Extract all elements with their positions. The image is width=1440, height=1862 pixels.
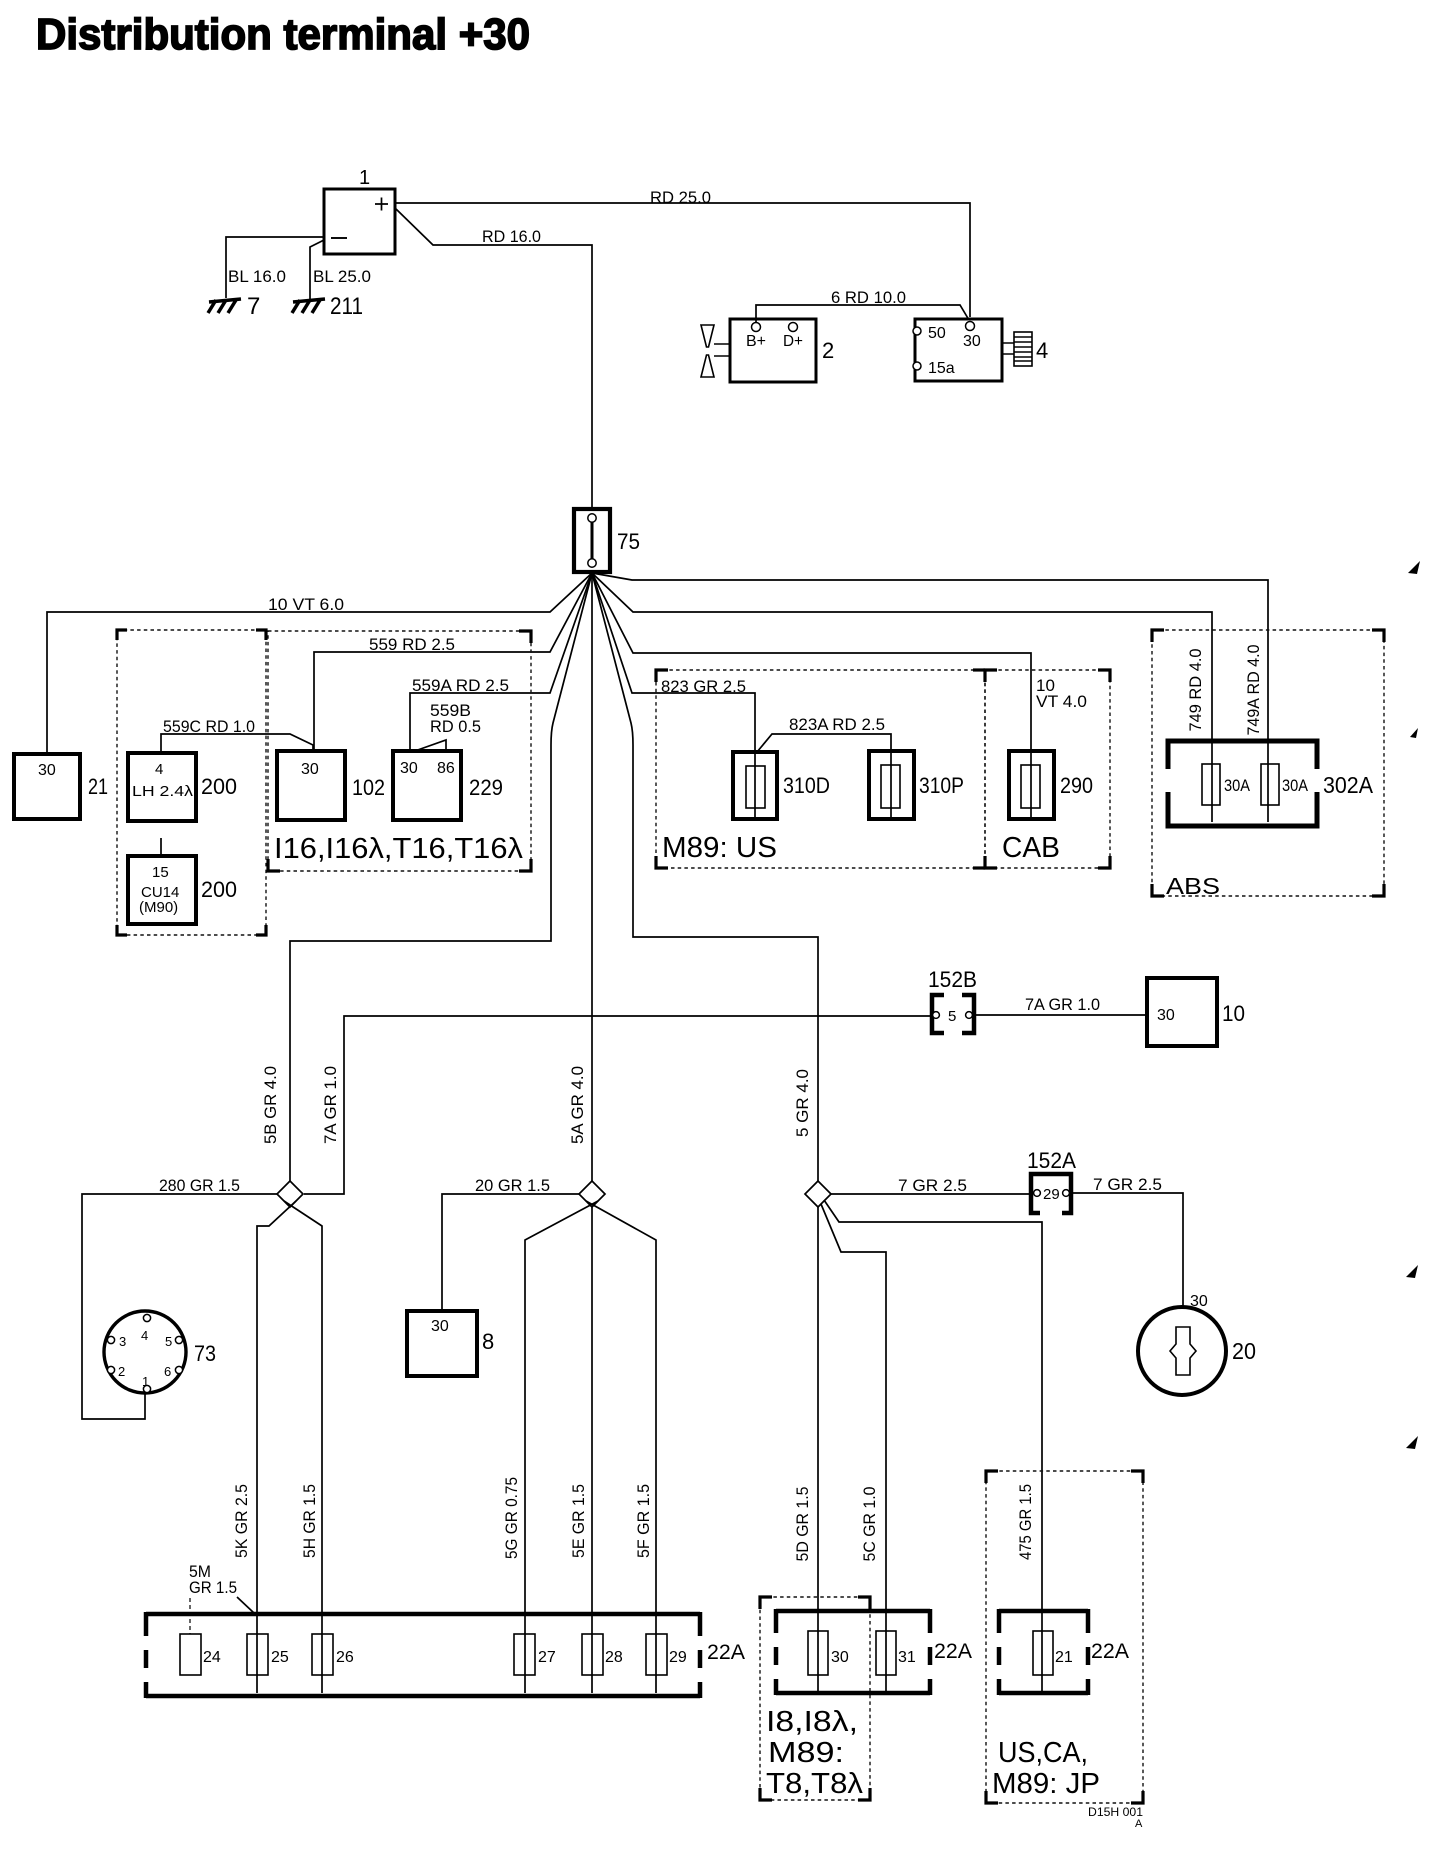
pin 50 — [913, 327, 921, 335]
wire 5M GR 1.5 label — [189, 1562, 254, 1613]
fuse 21 — [1033, 1631, 1073, 1675]
connector 10 — [1147, 978, 1245, 1046]
wire 7 GR 2.5 (152A to 20) — [1071, 1175, 1183, 1307]
svg-text:RD 16.0: RD 16.0 — [482, 227, 541, 246]
svg-text:B+: B+ — [746, 333, 766, 350]
svg-text:310P: 310P — [919, 773, 964, 798]
connector 21 — [14, 754, 108, 819]
svg-text:31: 31 — [898, 1649, 916, 1666]
svg-text:6 RD 10.0: 6 RD 10.0 — [831, 288, 906, 307]
svg-text:310D: 310D — [783, 773, 830, 798]
wire 749A RD 4.0 (75 to ABS right fuse) — [592, 573, 1268, 741]
page edge mark 2 — [1410, 728, 1418, 738]
ground 211 — [292, 293, 363, 320]
alternator 2 — [701, 319, 834, 382]
wire 7 GR 2.5 (junction to 152A) — [831, 1176, 1029, 1195]
svg-text:24: 24 — [203, 1649, 221, 1666]
svg-text:T8,T8λ: T8,T8λ — [766, 1768, 864, 1800]
fuse box 22A (fuses 24-29) — [146, 1612, 745, 1698]
svg-text:30: 30 — [431, 1318, 449, 1335]
svg-text:302A: 302A — [1323, 772, 1374, 798]
fuse 30 — [808, 1631, 849, 1675]
svg-text:475 GR 1.5: 475 GR 1.5 — [1016, 1484, 1035, 1560]
svg-text:GR 1.5: GR 1.5 — [189, 1578, 237, 1597]
svg-text:102: 102 — [352, 775, 385, 800]
svg-text:RD 25.0: RD 25.0 — [650, 188, 711, 207]
svg-text:5A GR 4.0: 5A GR 4.0 — [568, 1066, 587, 1144]
svg-text:BL 25.0: BL 25.0 — [313, 267, 371, 286]
svg-text:30: 30 — [400, 760, 418, 777]
fuse 29 — [646, 1634, 687, 1675]
svg-text:2: 2 — [118, 1364, 125, 1379]
svg-text:M89: US: M89: US — [662, 832, 777, 864]
wire 559A RD 2.5 (75 to 229 pin 30) — [410, 573, 592, 751]
svg-text:290: 290 — [1060, 773, 1093, 798]
svg-text:559C RD 1.0: 559C RD 1.0 — [163, 717, 255, 736]
wire 559C RD 1.0 — [161, 717, 313, 753]
fuse 25 — [247, 1634, 289, 1675]
dashed group box I8,I8[lambda],M89:T8,T8[lambda] — [760, 1597, 870, 1800]
fuse holder 302A (two 30A fuses) — [1168, 741, 1374, 826]
fuse 27 — [514, 1634, 556, 1675]
svg-text:5: 5 — [165, 1334, 172, 1349]
fuse 24 — [180, 1598, 221, 1675]
svg-text:823 GR 2.5: 823 GR 2.5 — [661, 677, 746, 696]
svg-text:5E GR 1.5: 5E GR 1.5 — [569, 1484, 588, 1558]
dashed group box CAB — [985, 670, 1110, 868]
svg-text:15a: 15a — [928, 360, 955, 377]
svg-text:BL 16.0: BL 16.0 — [228, 267, 286, 286]
control unit 200 (LH 2.4) — [128, 753, 237, 821]
svg-text:15: 15 — [152, 864, 169, 881]
wire 559B RD 0.5 — [412, 701, 481, 752]
svg-text:30: 30 — [1157, 1007, 1175, 1024]
page edge mark 3 — [1406, 1265, 1418, 1278]
svg-text:86: 86 — [437, 760, 455, 777]
ground 7 — [208, 293, 260, 320]
svg-text:1: 1 — [359, 167, 370, 189]
svg-text:50: 50 — [928, 325, 946, 342]
svg-text:5: 5 — [948, 1008, 956, 1025]
connector 102 — [277, 751, 385, 820]
svg-text:I16,I16λ,T16,T16λ: I16,I16λ,T16,T16λ — [274, 833, 524, 865]
svg-text:I8,I8λ,: I8,I8λ, — [766, 1706, 858, 1738]
svg-text:M89: JP: M89: JP — [992, 1768, 1100, 1800]
fuse 290 (CAB) — [1009, 751, 1093, 819]
svg-text:5F GR 1.5: 5F GR 1.5 — [634, 1484, 653, 1558]
svg-text:5B GR 4.0: 5B GR 4.0 — [261, 1066, 280, 1144]
svg-text:152A: 152A — [1027, 1148, 1076, 1173]
svg-text:A: A — [1135, 1818, 1143, 1830]
svg-text:27: 27 — [538, 1649, 556, 1666]
svg-text:7A GR 1.0: 7A GR 1.0 — [321, 1066, 340, 1144]
svg-text:D15H 001: D15H 001 — [1088, 1805, 1143, 1819]
svg-text:30: 30 — [301, 761, 319, 778]
svg-text:25: 25 — [271, 1649, 289, 1666]
junction node (5A feed) — [579, 1181, 605, 1207]
svg-text:280 GR 1.5: 280 GR 1.5 — [159, 1176, 240, 1195]
svg-text:2: 2 — [822, 338, 834, 363]
dashed group box 200 — [117, 630, 266, 935]
wire BL 25.0 — [310, 240, 371, 299]
wire 5 GR 4.0 (75 to junction) — [592, 573, 818, 1181]
connector 8 — [407, 1311, 494, 1376]
svg-text:73: 73 — [194, 1341, 216, 1366]
stub wire above CU14 — [160, 838, 162, 856]
svg-text:5 GR 4.0: 5 GR 4.0 — [793, 1069, 812, 1137]
junction node (5B feed) — [277, 1181, 303, 1207]
page edge mark 1 — [1408, 561, 1420, 574]
fuse box 22A (fuses 30,31) — [776, 1609, 972, 1695]
svg-text:3: 3 — [119, 1334, 126, 1349]
wire 475 GR 1.5 (junction to fuse 21) — [824, 1200, 1042, 1693]
dashed group box M89:US — [656, 670, 985, 868]
svg-text:22A: 22A — [934, 1640, 972, 1663]
svg-text:229: 229 — [469, 775, 503, 800]
battery 1 — [324, 167, 395, 254]
wire 5G GR 0.75 (to fuse 27) — [502, 1201, 598, 1693]
distribution terminal 75 — [574, 509, 640, 572]
svg-text:10 VT 6.0: 10 VT 6.0 — [268, 595, 344, 614]
wire 5A GR 4.0 (75 straight down) — [568, 573, 592, 1181]
svg-text:559A RD 2.5: 559A RD 2.5 — [412, 676, 509, 695]
svg-text:20 GR 1.5: 20 GR 1.5 — [475, 1176, 550, 1195]
svg-text:5G GR 0.75: 5G GR 0.75 — [502, 1477, 521, 1559]
wire 5K GR 2.5 (to fuse 25) — [232, 1201, 296, 1693]
connector 73 — [104, 1311, 216, 1393]
ignition switch 20 — [1138, 1293, 1256, 1395]
svg-text:200: 200 — [201, 774, 237, 799]
svg-text:1: 1 — [142, 1374, 149, 1389]
svg-text:749A RD 4.0: 749A RD 4.0 — [1244, 645, 1263, 736]
svg-text:7: 7 — [247, 293, 260, 320]
wire RD 16.0 — [395, 208, 592, 508]
svg-text:29: 29 — [1043, 1186, 1060, 1203]
svg-text:Distribution terminal +30: Distribution terminal +30 — [36, 10, 530, 59]
svg-text:4: 4 — [1036, 338, 1048, 363]
wire 559 RD 2.5 (75 to 102) — [314, 573, 592, 751]
wire 5B GR 4.0 (75 to junction) — [261, 573, 592, 1181]
svg-text:21: 21 — [1055, 1649, 1073, 1666]
wire 10 VT 6.0 (75 to 21) — [47, 573, 592, 754]
svg-text:30A: 30A — [1282, 776, 1309, 795]
wire 5D GR 1.5 (straight to fuse 30) — [793, 1207, 818, 1693]
svg-text:7A GR 1.0: 7A GR 1.0 — [1025, 995, 1100, 1014]
svg-text:20: 20 — [1232, 1338, 1256, 1364]
fuse 30A left — [1202, 764, 1220, 805]
svg-text:28: 28 — [605, 1649, 623, 1666]
relay 229 — [393, 751, 503, 820]
wire 5C GR 1.0 (junction to fuse 31) — [821, 1204, 886, 1693]
svg-text:10: 10 — [1222, 1001, 1245, 1026]
fuse 31 — [876, 1631, 916, 1675]
ignition switch 4 — [913, 319, 1048, 381]
svg-text:CAB: CAB — [1002, 832, 1060, 864]
fuse 30A right — [1261, 764, 1279, 805]
svg-text:5D GR 1.5: 5D GR 1.5 — [793, 1487, 812, 1562]
svg-text:75: 75 — [617, 529, 640, 554]
svg-text:4: 4 — [155, 761, 163, 778]
connector 152B — [928, 967, 977, 1033]
control unit 200 (CU14 M90) — [128, 856, 237, 924]
fuse box 22A (fuse 21) — [999, 1609, 1129, 1695]
wire 20 GR 1.5 (junction to 8) — [442, 1176, 579, 1311]
wire BL 16.0 — [226, 237, 324, 298]
svg-text:30A: 30A — [1224, 776, 1251, 795]
svg-text:200: 200 — [201, 877, 237, 902]
svg-text:6: 6 — [164, 1364, 171, 1379]
svg-text:LH 2.4λ: LH 2.4λ — [132, 783, 194, 800]
wire 5F GR 1.5 (to fuse 29) — [586, 1201, 656, 1693]
coil of 4 — [1002, 332, 1032, 366]
svg-text:559 RD 2.5: 559 RD 2.5 — [369, 635, 455, 654]
svg-text:RD 0.5: RD 0.5 — [430, 717, 481, 736]
wire 823A RD 2.5 — [757, 715, 891, 752]
svg-text:4: 4 — [141, 1328, 148, 1343]
wire 749 RD 4.0 (75 to ABS left fuse) — [592, 573, 1212, 741]
svg-text:22A: 22A — [1091, 1640, 1129, 1663]
fuse 26 — [312, 1634, 354, 1675]
svg-text:152B: 152B — [928, 967, 977, 992]
svg-text:30: 30 — [831, 1649, 849, 1666]
wire 280 GR 1.5 (junction to 73) — [82, 1176, 277, 1419]
svg-text:211: 211 — [330, 293, 363, 320]
svg-text:5H GR 1.5: 5H GR 1.5 — [300, 1484, 319, 1558]
wire RD 25.0 — [395, 188, 970, 317]
svg-text:8: 8 — [482, 1329, 494, 1354]
wire 6 RD 10.0 — [756, 288, 969, 322]
page edge mark 4 — [1406, 1436, 1418, 1449]
fuse 310D — [733, 752, 830, 819]
dashed group box ABS — [1152, 630, 1384, 899]
svg-text:749 RD 4.0: 749 RD 4.0 — [1186, 649, 1205, 732]
wire 10 VT 4.0 (75 to CAB fuse 290) — [592, 573, 1087, 751]
svg-text:5K GR 2.5: 5K GR 2.5 — [232, 1484, 251, 1558]
wire 5H GR 1.5 (to fuse 26) — [284, 1201, 322, 1693]
wire 823 GR 2.5 (75 to fuse 310D) — [592, 573, 755, 752]
connector 152A — [1027, 1148, 1076, 1213]
dashed group box US,CA,M89:JP — [986, 1471, 1143, 1803]
svg-text:ABS: ABS — [1166, 873, 1220, 899]
pin 15a — [913, 362, 921, 370]
svg-text:5C GR 1.0: 5C GR 1.0 — [860, 1487, 879, 1562]
svg-text:7 GR 2.5: 7 GR 2.5 — [898, 1176, 967, 1195]
svg-text:US,CA,: US,CA, — [998, 1737, 1088, 1769]
fuse 28 — [582, 1634, 623, 1675]
svg-text:26: 26 — [336, 1649, 354, 1666]
svg-text:VT 4.0: VT 4.0 — [1036, 692, 1087, 711]
svg-text:29: 29 — [669, 1649, 687, 1666]
dashed group box I16,I16[lambda],T16,T16[lambda] — [268, 631, 531, 871]
svg-text:D+: D+ — [783, 333, 803, 350]
wire 7A GR 1.0 (junction to 152B) — [304, 1016, 930, 1194]
svg-text:30: 30 — [963, 333, 981, 350]
fuse 310P — [869, 751, 964, 819]
svg-text:M89:: M89: — [768, 1737, 844, 1769]
wire 7A GR 1.0 (152B to 10) — [976, 995, 1147, 1015]
drawing number D15H 001 A — [1088, 1805, 1143, 1830]
junction node (5 feed) — [805, 1181, 831, 1207]
svg-text:21: 21 — [88, 774, 108, 799]
svg-text:30: 30 — [38, 762, 56, 779]
svg-text:(M90): (M90) — [139, 899, 178, 916]
svg-text:22A: 22A — [707, 1641, 745, 1664]
wire 5E GR 1.5 (straight to fuse 28) — [569, 1207, 592, 1693]
svg-text:7 GR 2.5: 7 GR 2.5 — [1093, 1175, 1162, 1194]
alternator pulley — [701, 325, 714, 347]
svg-text:823A RD 2.5: 823A RD 2.5 — [789, 715, 885, 734]
